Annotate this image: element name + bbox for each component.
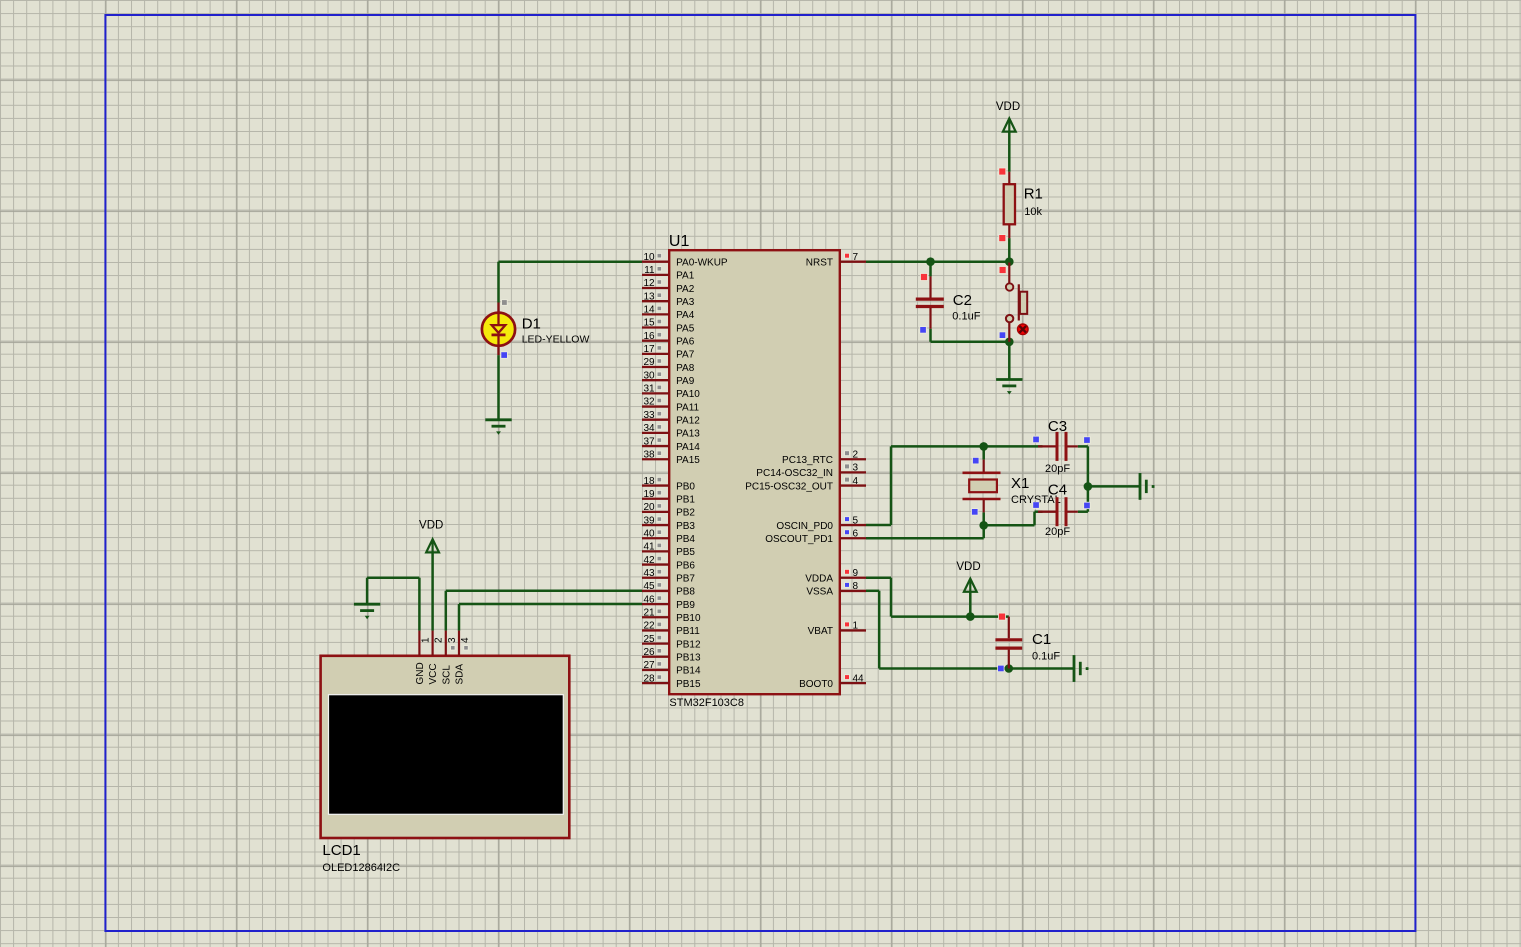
ground right of crystal caps xyxy=(1140,473,1155,500)
svg-text:20: 20 xyxy=(643,502,655,513)
wire PB8 to LCD SCL xyxy=(446,591,642,631)
svg-text:38: 38 xyxy=(643,449,655,460)
U1 pin 39 (PB3) xyxy=(642,515,695,532)
svg-text:BOOT0: BOOT0 xyxy=(799,679,833,690)
LCD1 pin 4 (SDA) xyxy=(455,631,471,685)
LCD1 reference label xyxy=(322,842,360,859)
LCD1 pin 1 (GND) xyxy=(415,631,431,685)
svg-text:1: 1 xyxy=(420,637,431,643)
C4 reference label xyxy=(1048,482,1067,499)
capacitor C3 leads xyxy=(1038,445,1078,447)
X1 terminal state squares xyxy=(972,457,980,515)
svg-text:PB7: PB7 xyxy=(676,574,695,585)
U1 pin 7 (NRST) xyxy=(806,252,866,269)
svg-text:25: 25 xyxy=(643,634,655,645)
C2 terminal state squares xyxy=(920,274,928,334)
wire crystal bottom lead xyxy=(982,512,985,525)
wire OSCIN_PD0 to crystal net xyxy=(866,446,1043,525)
svg-text:41: 41 xyxy=(643,542,655,553)
LED D1 leads xyxy=(497,303,499,356)
svg-text:PB15: PB15 xyxy=(676,679,701,690)
VDD net label (R1) xyxy=(996,101,1020,113)
svg-text:R1: R1 xyxy=(1024,186,1043,203)
svg-text:U1: U1 xyxy=(669,233,690,250)
svg-text:GND: GND xyxy=(415,662,426,684)
U1 pin 32 (PA11) xyxy=(642,397,700,414)
svg-text:42: 42 xyxy=(643,555,655,566)
wire LCD GND pin to ground xyxy=(367,578,419,631)
wire C2 bottom xyxy=(931,329,1010,342)
C3 terminal state squares xyxy=(1033,436,1090,443)
LED D1 body xyxy=(482,313,515,346)
wire to crystal ground symbol xyxy=(1088,485,1140,488)
C3 value label 20pF xyxy=(1045,463,1070,475)
C2 reference label xyxy=(953,292,972,309)
svg-text:PA9: PA9 xyxy=(676,376,695,387)
U1 pin 22 (PB11) xyxy=(642,621,700,638)
svg-text:PB9: PB9 xyxy=(676,600,695,611)
LCD1 pin 2 (VCC) xyxy=(428,631,444,685)
U1 pin 46 (PB9) xyxy=(642,594,695,611)
svg-text:30: 30 xyxy=(643,370,655,381)
svg-text:37: 37 xyxy=(643,436,655,447)
U1 pin 37 (PA14) xyxy=(642,436,700,453)
svg-text:0.1uF: 0.1uF xyxy=(1032,650,1060,662)
svg-text:32: 32 xyxy=(643,397,655,408)
svg-text:6: 6 xyxy=(853,528,859,539)
resistor R1 body xyxy=(1004,184,1015,224)
C2 value label 0.1uF xyxy=(952,311,980,323)
U1 pin 44 (BOOT0) xyxy=(799,673,866,690)
C4 value label 20pF xyxy=(1045,526,1070,538)
svg-text:45: 45 xyxy=(643,581,655,592)
svg-text:OLED12864I2C: OLED12864I2C xyxy=(322,862,400,874)
wire PB9 to LCD SDA xyxy=(459,604,642,631)
svg-text:D1: D1 xyxy=(522,315,541,332)
svg-text:C2: C2 xyxy=(953,292,972,309)
svg-text:27: 27 xyxy=(643,660,655,671)
wire OSCOUT_PD1 to crystal bottom xyxy=(866,525,984,538)
U1 pin 9 (VDDA) xyxy=(805,568,866,585)
node NRST junction at R1/button xyxy=(1005,257,1014,266)
svg-text:33: 33 xyxy=(643,410,655,421)
D1 terminal state squares xyxy=(501,300,508,359)
capacitor C2 leads xyxy=(929,276,931,328)
power VDD symbol above LCD1 xyxy=(426,539,439,552)
VDD net label (C1) xyxy=(956,561,980,573)
svg-text:16: 16 xyxy=(643,331,655,342)
svg-text:PA4: PA4 xyxy=(676,310,695,321)
svg-text:34: 34 xyxy=(643,423,655,434)
svg-text:PA3: PA3 xyxy=(676,297,695,308)
svg-text:PA15: PA15 xyxy=(676,455,700,466)
crystal X1 leads xyxy=(983,460,985,513)
svg-text:VDD: VDD xyxy=(956,561,980,573)
svg-text:PB14: PB14 xyxy=(676,666,701,677)
svg-text:PA7: PA7 xyxy=(676,350,695,361)
U1 pin 34 (PA13) xyxy=(642,423,700,440)
node crystal bottom junction xyxy=(979,521,988,530)
wire C3 right to ground net xyxy=(1078,446,1088,511)
capacitor C4 leads xyxy=(1038,511,1078,513)
wire C2 top tap xyxy=(929,262,932,277)
X1 reference label xyxy=(1011,475,1029,492)
svg-text:VDD: VDD xyxy=(419,520,443,532)
svg-text:NRST: NRST xyxy=(806,257,833,268)
button terminal state squares xyxy=(999,267,1006,339)
R1 reference label xyxy=(1024,186,1043,203)
button interactive toggle xyxy=(1018,324,1029,335)
svg-text:VSSA: VSSA xyxy=(806,587,833,598)
U1 pin 45 (PB8) xyxy=(642,581,695,598)
svg-text:X1: X1 xyxy=(1011,475,1029,492)
svg-text:PB5: PB5 xyxy=(676,547,695,558)
svg-text:3: 3 xyxy=(853,463,859,474)
svg-text:12: 12 xyxy=(643,278,655,289)
C1 terminal state squares xyxy=(998,613,1006,672)
svg-text:C4: C4 xyxy=(1048,482,1067,499)
svg-text:20pF: 20pF xyxy=(1045,463,1070,475)
svg-text:VDD: VDD xyxy=(996,101,1020,113)
ground below LED D1 xyxy=(485,420,511,435)
X1 value label CRYSTAL xyxy=(1011,494,1061,506)
power VDD symbol above R1 xyxy=(1003,118,1016,131)
U1 reference label xyxy=(669,233,690,250)
svg-text:1: 1 xyxy=(853,621,859,632)
capacitor C4 plates xyxy=(1057,497,1066,526)
svg-text:VCC: VCC xyxy=(428,663,439,684)
svg-text:C3: C3 xyxy=(1048,418,1067,435)
R1 value label 10k xyxy=(1024,206,1042,218)
svg-text:VBAT: VBAT xyxy=(808,626,833,637)
C3 reference label xyxy=(1048,418,1067,435)
svg-text:LCD1: LCD1 xyxy=(322,842,360,859)
svg-text:15: 15 xyxy=(643,318,655,329)
U1 pin 18 (PB0) xyxy=(642,476,695,493)
svg-text:VDDA: VDDA xyxy=(805,574,833,585)
capacitor C2 plates xyxy=(916,299,944,306)
wire crystal bottom to C4 xyxy=(984,512,1043,526)
U1 pin 19 (PB1) xyxy=(642,489,695,506)
svg-text:18: 18 xyxy=(643,476,655,487)
svg-text:PB2: PB2 xyxy=(676,508,695,519)
U1 pin 6 (OSCOUT_PD1) xyxy=(765,528,866,545)
node VDD/C1 junction xyxy=(966,612,975,621)
wire LCD VCC pin to VDD xyxy=(431,552,434,631)
U1 pin 15 (PA5) xyxy=(642,318,695,335)
wire LED cathode to ground xyxy=(497,355,500,420)
svg-text:29: 29 xyxy=(643,357,655,368)
U1 pin 31 (PA10) xyxy=(642,384,700,401)
wire NRST net xyxy=(866,260,1009,263)
U1 pin 40 (PB4) xyxy=(642,528,695,545)
resistor R1 leads xyxy=(1008,172,1010,238)
svg-text:14: 14 xyxy=(643,305,655,316)
svg-text:26: 26 xyxy=(643,647,655,658)
U1 pin 25 (PB12) xyxy=(642,634,701,651)
svg-text:2: 2 xyxy=(853,449,859,460)
svg-text:31: 31 xyxy=(643,384,655,395)
node button bottom junction xyxy=(1005,338,1014,347)
U1 pin 29 (PA8) xyxy=(642,357,695,374)
U1 pin 13 (PA3) xyxy=(642,291,695,308)
svg-text:LED-YELLOW: LED-YELLOW xyxy=(522,333,590,345)
ground for LCD1 xyxy=(354,604,380,619)
svg-text:3: 3 xyxy=(447,637,458,643)
capacitor C1 plates xyxy=(995,640,1022,648)
svg-text:PB1: PB1 xyxy=(676,495,695,506)
svg-text:OSCIN_PD0: OSCIN_PD0 xyxy=(776,521,833,532)
svg-text:PC13_RTC: PC13_RTC xyxy=(782,455,833,466)
op-amp U1 body (STM32F103C8 MCU) xyxy=(669,250,840,694)
C1 reference label xyxy=(1032,631,1051,648)
svg-text:PC14-OSC32_IN: PC14-OSC32_IN xyxy=(756,468,833,479)
power VDD symbol above C1 xyxy=(964,579,977,592)
U1 pin 21 (PB10) xyxy=(642,607,701,624)
svg-text:PA14: PA14 xyxy=(676,442,700,453)
capacitor C1 leads xyxy=(1008,617,1010,669)
svg-text:4: 4 xyxy=(460,637,471,643)
svg-text:PB13: PB13 xyxy=(676,653,701,664)
svg-text:21: 21 xyxy=(643,607,655,618)
svg-text:PC15-OSC32_OUT: PC15-OSC32_OUT xyxy=(745,481,833,492)
svg-text:8: 8 xyxy=(853,581,859,592)
U1 pin 33 (PA12) xyxy=(642,410,700,427)
svg-text:PA6: PA6 xyxy=(676,336,695,347)
svg-text:0.1uF: 0.1uF xyxy=(952,311,980,323)
svg-text:SDA: SDA xyxy=(455,664,466,685)
U1 pin 10 (PA0-WKUP) xyxy=(642,252,728,269)
svg-text:10k: 10k xyxy=(1024,206,1042,218)
U1 pin 8 (VSSA) xyxy=(806,581,866,598)
svg-text:PA12: PA12 xyxy=(676,416,700,427)
wire PA0 to LED D1 xyxy=(499,262,643,303)
svg-text:PA1: PA1 xyxy=(676,271,695,282)
svg-text:5: 5 xyxy=(853,515,859,526)
U1 pin 20 (PB2) xyxy=(642,502,695,519)
U1 pin 27 (PB14) xyxy=(642,660,701,677)
node C3/C4 ground junction xyxy=(1084,482,1093,491)
svg-text:44: 44 xyxy=(853,673,865,684)
U1 pin 5 (OSCIN_PD0) xyxy=(776,515,866,532)
LCD1 value label OLED12864I2C xyxy=(322,862,400,874)
U1 pin 11 (PA1) xyxy=(642,265,695,282)
D1 reference label xyxy=(522,315,541,332)
svg-text:PA2: PA2 xyxy=(676,284,695,295)
svg-text:PA11: PA11 xyxy=(676,402,699,413)
U1 pin 38 (PA15) xyxy=(642,449,700,466)
U1 pin 26 (PB13) xyxy=(642,647,701,664)
svg-text:STM32F103C8: STM32F103C8 xyxy=(669,697,744,709)
svg-text:PA8: PA8 xyxy=(676,363,695,374)
capacitor C3 plates xyxy=(1057,432,1066,461)
node crystal top junction xyxy=(979,442,988,451)
svg-text:SCL: SCL xyxy=(441,665,452,685)
U1 pin 28 (PB15) xyxy=(642,673,701,690)
D1 value label LED-YELLOW xyxy=(522,333,590,345)
svg-text:PB6: PB6 xyxy=(676,560,695,571)
svg-text:4: 4 xyxy=(853,476,859,487)
U1 pin 17 (PA7) xyxy=(642,344,695,361)
svg-text:PB10: PB10 xyxy=(676,613,701,624)
svg-text:46: 46 xyxy=(643,594,655,605)
wire VSSA to C1 bottom/ground xyxy=(866,591,1074,669)
U1 pin 2 (PC13_RTC) xyxy=(782,449,866,466)
C1 value label 0.1uF xyxy=(1032,650,1060,662)
wire button bottom to ground xyxy=(1008,342,1011,380)
node NRST junction at C2 tap xyxy=(926,257,935,266)
U1 pin 1 (VBAT) xyxy=(808,621,866,638)
svg-text:PA5: PA5 xyxy=(676,323,695,334)
wire R1 bottom to NRST xyxy=(1008,238,1011,262)
LCD1 body xyxy=(321,656,570,838)
svg-text:9: 9 xyxy=(853,568,859,579)
svg-text:19: 19 xyxy=(643,489,655,500)
svg-text:PA0-WKUP: PA0-WKUP xyxy=(676,257,728,268)
svg-text:43: 43 xyxy=(643,568,655,579)
svg-text:39: 39 xyxy=(643,515,655,526)
svg-text:PB12: PB12 xyxy=(676,639,701,650)
button leads xyxy=(1008,263,1010,342)
U1 pin 42 (PB6) xyxy=(642,555,695,572)
wire VDD to R1 top xyxy=(1008,132,1011,172)
U1 pin 4 (PC15-OSC32_OUT) xyxy=(745,476,866,493)
svg-text:13: 13 xyxy=(643,291,655,302)
ground below button xyxy=(996,380,1022,395)
svg-text:PB3: PB3 xyxy=(676,521,695,532)
svg-text:OSCOUT_PD1: OSCOUT_PD1 xyxy=(765,534,833,545)
U1 pin 3 (PC14-OSC32_IN) xyxy=(756,463,866,480)
button actuator xyxy=(1019,284,1027,320)
svg-text:PB11: PB11 xyxy=(676,626,700,637)
svg-text:10: 10 xyxy=(643,252,655,263)
U1 pin 14 (PA4) xyxy=(642,305,695,322)
node C1 bottom junction xyxy=(1005,664,1014,673)
wire crystal top lead xyxy=(982,446,985,459)
LCD1 screen xyxy=(329,695,564,815)
svg-text:11: 11 xyxy=(644,265,655,276)
crystal X1 body xyxy=(963,473,1001,499)
U1 pin 43 (PB7) xyxy=(642,568,695,585)
button contacts xyxy=(1006,283,1013,322)
svg-text:2: 2 xyxy=(434,637,445,643)
svg-text:17: 17 xyxy=(643,344,655,355)
LCD1 pin 3 (SCL) xyxy=(441,631,457,685)
wire VDD symbol lead xyxy=(969,591,972,616)
svg-text:22: 22 xyxy=(643,621,655,632)
svg-text:PB4: PB4 xyxy=(676,534,695,545)
svg-text:40: 40 xyxy=(643,528,655,539)
svg-text:PA13: PA13 xyxy=(676,429,700,440)
U1 pin 16 (PA6) xyxy=(642,331,695,348)
ground right of C1 xyxy=(1074,655,1089,682)
U1 pin 12 (PA2) xyxy=(642,278,695,295)
VDD net label (LCD1) xyxy=(419,520,443,532)
svg-text:28: 28 xyxy=(643,673,655,684)
svg-text:20pF: 20pF xyxy=(1045,526,1070,538)
svg-text:7: 7 xyxy=(853,252,859,263)
U1 value label STM32F103C8 xyxy=(669,697,744,709)
C4 terminal state squares xyxy=(1033,502,1090,509)
R1 terminal state squares xyxy=(999,168,1006,242)
svg-text:PB0: PB0 xyxy=(676,481,695,492)
svg-text:PA10: PA10 xyxy=(676,389,700,400)
U1 pin 41 (PB5) xyxy=(642,542,695,559)
U1 pin 30 (PA9) xyxy=(642,370,695,387)
svg-text:PB8: PB8 xyxy=(676,587,695,598)
svg-text:C1: C1 xyxy=(1032,631,1051,648)
wire VDDA to VDD/C1 xyxy=(866,578,1009,617)
